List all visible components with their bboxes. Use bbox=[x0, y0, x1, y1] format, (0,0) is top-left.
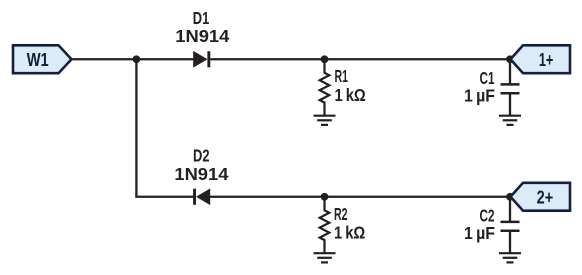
ground (R1) bbox=[314, 116, 336, 125]
ground (C2) bbox=[499, 253, 521, 262]
svg-text:2+: 2+ bbox=[537, 188, 554, 208]
svg-text:1 kΩ: 1 kΩ bbox=[334, 223, 365, 243]
wire W1 to node A bbox=[70, 58, 136, 60]
capacitor C1 bbox=[501, 59, 520, 115]
wire node D to node E bbox=[325, 196, 511, 198]
connector 1+ bbox=[511, 45, 571, 73]
resistor R1 bbox=[320, 59, 330, 115]
connector W1 bbox=[13, 45, 72, 73]
node B junction dot bbox=[321, 55, 329, 63]
svg-text:R2: R2 bbox=[334, 204, 348, 224]
wire D1 cathode to node B bbox=[210, 58, 324, 60]
svg-text:D2: D2 bbox=[193, 146, 210, 166]
node A junction dot bbox=[133, 55, 141, 63]
wire corner to D2 cathode bbox=[135, 196, 193, 198]
svg-text:1 kΩ: 1 kΩ bbox=[335, 85, 366, 105]
svg-text:1 µF: 1 µF bbox=[464, 223, 495, 243]
diode D2 bbox=[193, 188, 210, 205]
capacitor C2 bbox=[501, 197, 520, 253]
svg-text:1+: 1+ bbox=[539, 50, 554, 70]
wire node B to node C bbox=[325, 58, 511, 60]
svg-text:1N914: 1N914 bbox=[174, 164, 228, 184]
node E junction dot bbox=[506, 193, 514, 201]
svg-text:1 µF: 1 µF bbox=[464, 86, 495, 106]
connector 2+ bbox=[511, 183, 571, 211]
svg-text:R1: R1 bbox=[335, 66, 349, 86]
ground (C1) bbox=[499, 116, 521, 125]
diode D1 bbox=[193, 51, 210, 68]
node C junction dot bbox=[506, 55, 514, 63]
svg-text:1N914: 1N914 bbox=[175, 26, 229, 46]
svg-text:W1: W1 bbox=[27, 49, 49, 70]
ground (R2) bbox=[314, 253, 336, 262]
resistor R2 bbox=[320, 197, 330, 253]
wire node A to D1 anode bbox=[136, 58, 193, 60]
wire D2 anode to node D bbox=[210, 196, 325, 198]
wire node A down (vertical) bbox=[135, 59, 137, 197]
node D junction dot bbox=[321, 193, 329, 201]
